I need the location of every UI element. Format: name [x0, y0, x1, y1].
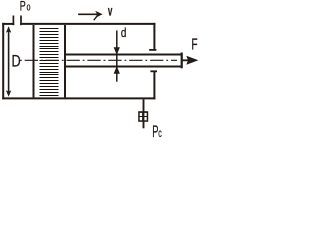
right wall upper foot	[149, 49, 156, 51]
valve white pocket bottom-right	[144, 117, 146, 120]
F arrowhead	[186, 56, 198, 65]
v arrow shaft	[78, 13, 97, 15]
piston left edge	[33, 25, 35, 97]
valve box	[138, 111, 148, 122]
svg-text:v: v	[108, 3, 113, 19]
v arrowhead	[95, 11, 102, 18]
valve white pocket top-right	[144, 113, 146, 116]
rod end cap	[181, 53, 183, 69]
cylinder bottom wall	[2, 97, 155, 99]
piston rod bottom edge	[65, 66, 182, 68]
dimension D top arrowhead	[6, 26, 11, 33]
svg-text:0: 0	[27, 4, 31, 13]
cylinder top wall left segment	[2, 23, 14, 25]
F arrow shaft	[183, 59, 189, 61]
svg-text:c: c	[158, 128, 162, 140]
dimension D bottom arrowhead	[6, 90, 11, 97]
right wall lower foot	[150, 70, 157, 72]
cylinder right wall upper segment	[153, 23, 155, 50]
valve white pocket top-left	[140, 113, 142, 116]
port left lip	[12, 16, 14, 26]
piston hatch lines	[39, 28, 58, 96]
cylinder top wall right segment	[20, 23, 155, 25]
dimension d down arrowhead	[114, 47, 120, 55]
svg-text:P: P	[20, 0, 26, 14]
svg-text:d: d	[121, 26, 127, 40]
valve white pocket bottom-left	[140, 117, 142, 120]
cylinder left wall	[2, 23, 4, 100]
port right lip	[20, 16, 22, 26]
dimension d upper line	[116, 31, 118, 82]
cylinder right wall lower segment	[153, 71, 155, 99]
centerline dash-dot	[20, 59, 177, 61]
svg-text:D: D	[12, 52, 21, 70]
bottom port pipe	[143, 99, 145, 128]
piston right edge	[64, 25, 66, 97]
piston rod top edge	[65, 54, 182, 56]
dimension d up arrowhead	[114, 66, 120, 74]
svg-text:F: F	[191, 37, 197, 54]
v arrow lower swash	[94, 16, 98, 21]
dimension D line	[8, 31, 10, 92]
